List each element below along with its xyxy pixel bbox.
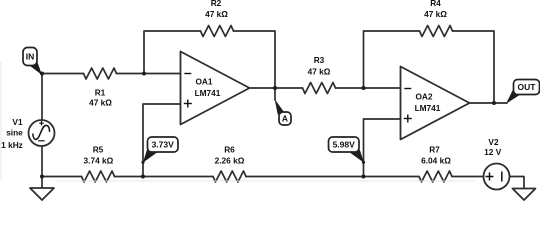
op-amp U2 OA2: [401, 67, 470, 140]
svg-text:12 V: 12 V: [484, 147, 502, 157]
wire node to R2 top rail: [144, 31, 201, 74]
svg-text:V1: V1: [12, 117, 23, 127]
wire bottom rail V1 to R5: [42, 176, 82, 178]
resistor R2: [201, 26, 234, 37]
svg-text:sine: sine: [6, 128, 23, 138]
svg-text:IN: IN: [26, 52, 35, 62]
svg-text:R6: R6: [224, 144, 235, 154]
wire R1 to OA1 inverting input: [117, 73, 181, 75]
svg-text:R3: R3: [314, 55, 325, 65]
svg-text:OUT: OUT: [518, 82, 537, 92]
wire OA2 noninverting input to bottom rail: [364, 119, 401, 177]
wire IN node to R1: [42, 73, 84, 75]
svg-text:R4: R4: [430, 0, 441, 8]
wire R2 to OA1 output: [234, 31, 276, 88]
wire OA2 output: [470, 102, 508, 104]
ground (right): [513, 189, 536, 201]
node IN junction: [40, 72, 44, 76]
source V2 DC 12V: [484, 137, 510, 190]
op-amp U1 OA1: [181, 52, 250, 125]
svg-text:R5: R5: [93, 144, 104, 154]
svg-text:5.98V: 5.98V: [333, 140, 356, 150]
wire OA1 noninverting input to bottom rail: [143, 104, 181, 177]
svg-text:V2: V2: [488, 137, 499, 147]
source V1 sine: [1, 117, 54, 150]
node OUT junction: [492, 101, 496, 105]
svg-text:A: A: [282, 114, 288, 124]
flag IN: [23, 48, 42, 76]
faint scan artifact lines: [55, 180, 475, 182]
node R1/R2 junction: [142, 72, 146, 76]
resistor R1: [84, 68, 117, 79]
resistor R7: [419, 171, 452, 182]
wire R3 to OA2 inverting input: [336, 87, 401, 89]
probe flag 3.73V: [141, 137, 178, 164]
svg-text:OA2: OA2: [415, 91, 432, 101]
wire V2 to ground: [510, 177, 525, 189]
wire R5 to R6: [115, 176, 214, 178]
wire IN node to V1: [41, 74, 43, 121]
svg-text:R7: R7: [429, 144, 440, 154]
flag node A: [275, 99, 291, 125]
resistor R6: [213, 171, 246, 182]
wire R4 to OA2 output: [453, 31, 495, 103]
resistor R4: [420, 26, 453, 37]
ground (left): [30, 188, 54, 200]
wire R7 to V2: [452, 176, 484, 178]
wire R6 to R7: [246, 176, 419, 178]
node rail/OA2+ junction: [362, 175, 366, 179]
node A junction: [273, 86, 277, 90]
svg-text:2.26 kΩ: 2.26 kΩ: [215, 156, 245, 166]
svg-text:6.04 kΩ: 6.04 kΩ: [421, 156, 451, 166]
probe flag 5.98V: [329, 137, 366, 164]
svg-text:47 kΩ: 47 kΩ: [205, 9, 228, 19]
node V1/rail junction: [40, 175, 44, 179]
svg-text:47 kΩ: 47 kΩ: [89, 98, 112, 108]
resistor R5: [82, 171, 115, 182]
svg-text:R1: R1: [95, 87, 106, 97]
svg-text:47 kΩ: 47 kΩ: [424, 9, 447, 19]
svg-text:LM741: LM741: [195, 88, 221, 98]
wire node to R4 top rail: [364, 31, 420, 88]
svg-text:3.74 kΩ: 3.74 kΩ: [84, 156, 114, 166]
node R3/R4 junction: [362, 86, 366, 90]
svg-text:3.73V: 3.73V: [152, 140, 175, 150]
wire node A stub: [274, 88, 276, 100]
wire OA1 output to R3: [250, 87, 303, 89]
wire V1 to ground: [41, 146, 43, 189]
svg-text:R2: R2: [211, 0, 222, 8]
svg-text:47 kΩ: 47 kΩ: [308, 67, 331, 77]
resistor R3: [303, 83, 336, 94]
svg-text:1 kHz: 1 kHz: [1, 140, 23, 150]
svg-text:LM741: LM741: [415, 103, 441, 113]
node rail/OA1+ junction: [141, 175, 145, 179]
flag OUT: [506, 80, 540, 104]
svg-text:OA1: OA1: [195, 76, 212, 86]
